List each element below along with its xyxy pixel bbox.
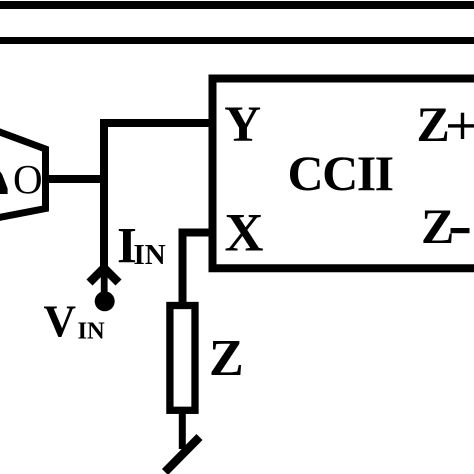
wire X terminal stub horizontal [179,229,217,237]
terminal label Z- minus sign [451,228,470,233]
svg-text:Z: Z [417,96,450,152]
wire input node vertical [100,119,108,266]
svg-text:Y: Y [224,97,261,153]
impedance Z1 (rectangle body) [170,306,195,411]
node V_IN dot [95,291,115,311]
svg-text:V: V [44,297,77,347]
CCII box U2 [213,79,474,269]
op-amp U1 label A (clipped) [0,172,8,195]
svg-text:X: X [225,203,264,263]
wire arrow shaft to node dot [101,262,108,294]
wire top bus line 1 [0,1,474,9]
wire top bus line 2 [0,37,474,44]
svg-text:Z: Z [209,330,244,387]
wire from input node to Y terminal [100,119,216,127]
svg-text:O: O [13,156,43,202]
wire X terminal vertical down to impedance Z [179,229,187,306]
svg-text:IN: IN [134,239,166,271]
svg-text:IN: IN [78,318,106,345]
op-amp U1 (clipped at left edge) [0,124,46,222]
wire from op-amp output to input node [45,175,108,183]
svg-text:Z: Z [421,198,454,254]
svg-text:CCII: CCII [288,145,393,201]
current arrow I_IN (pointing up) [90,268,119,283]
terminal label Z+ plus sign [448,124,474,127]
ground lead diagonal stroke [165,437,200,472]
wire below impedance Z1 [179,413,186,449]
